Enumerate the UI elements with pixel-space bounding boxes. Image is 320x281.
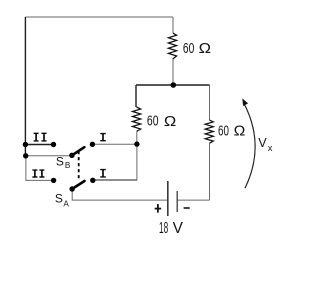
svg-text:A: A [63, 200, 69, 209]
svg-text:Ω: Ω [199, 40, 211, 57]
svg-text:S: S [56, 155, 64, 169]
svg-text:V: V [258, 136, 267, 150]
svg-text:60: 60 [218, 124, 229, 140]
svg-text:B: B [65, 161, 71, 170]
svg-text:18: 18 [159, 220, 168, 237]
svg-text:60: 60 [183, 41, 194, 57]
svg-text:Ω: Ω [234, 123, 246, 140]
svg-text:Ω: Ω [164, 113, 176, 130]
svg-text:V: V [173, 220, 184, 237]
svg-text:x: x [268, 143, 273, 154]
svg-text:S: S [55, 192, 63, 206]
svg-text:60: 60 [147, 114, 159, 130]
